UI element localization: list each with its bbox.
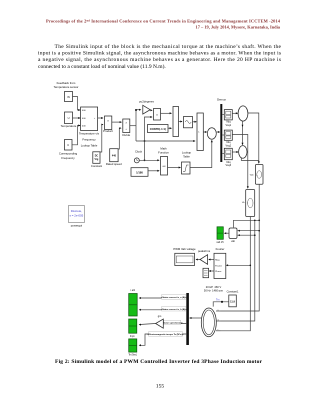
bus wire 1: stator current is_a (139, 297, 186, 299)
wire selector to mux1 (161, 112, 172, 114)
svg-text:C: C (67, 143, 69, 147)
svg-text:Lookup Table: Lookup Table (81, 143, 98, 147)
wire 1/180 to math function input 2 (148, 170, 159, 172)
math function block (161, 157, 168, 176)
display block PWM Vab voltage (175, 253, 195, 265)
label: Corresponding Frequency (59, 152, 78, 160)
svg-text:1/180: 1/180 (136, 171, 143, 175)
svg-text:input is a positive Simulink s: input is a positive Simulink signal, the… (38, 50, 281, 56)
svg-text:Function: Function (158, 151, 169, 155)
label: demux output 2 (225, 141, 231, 147)
wire machine m output to bus selector (190, 317, 202, 319)
svg-text:Clock: Clock (135, 149, 143, 153)
label: Temperature v/s Frequency Lookup Table (79, 131, 100, 147)
wire ellipse V2 bottom to Vab measurement top (241, 158, 258, 160)
svg-text:Vsq1: Vsq1 (225, 124, 231, 127)
svg-text:connected to a constant load o: connected to a constant load of nominal … (38, 63, 166, 70)
wire math function to lookup table 2 (168, 167, 181, 169)
svg-text:Demux: Demux (217, 98, 226, 102)
wire clock to math function input 1 (139, 159, 159, 161)
gain triangle peak2rms (200, 255, 208, 265)
label: Lookup Table (182, 150, 192, 158)
label: demux output 3 (225, 161, 231, 167)
bus wire 4: electromagnetic torque (139, 334, 186, 345)
wire block 3 to ellipse V2 (232, 151, 238, 153)
svg-text:a negative signal, the asynchr: a negative signal, the asynchronous mach… (38, 57, 281, 63)
wire horizontal tap y220 (234, 220, 260, 227)
wire gm gain to green scope frqm (139, 324, 155, 325)
svg-text:v: v (247, 203, 248, 205)
svg-text:Vsq3: Vsq3 (225, 164, 231, 167)
ellipse V1 (238, 106, 248, 121)
voltage measurement block Vab (255, 165, 263, 185)
signal label: Stator current is_a (161, 295, 187, 299)
svg-text:frqm: frqm (130, 335, 135, 338)
wire fourier input from phase bus (227, 264, 251, 266)
svg-text:Vtg: Vtg (95, 158, 99, 161)
demux output block 3 (224, 148, 232, 159)
wire selector mux to green scope vab (225, 232, 229, 234)
svg-text:Discrete,: Discrete, (71, 209, 83, 213)
wire demux to block 2 (222, 134, 224, 136)
display block phase (203, 268, 209, 277)
svg-text:IN: IN (67, 95, 70, 99)
wire ellipse V1 bottom to ellipse V2 top (242, 121, 244, 144)
modulator ellipse (207, 128, 216, 139)
fourier block (214, 253, 226, 278)
asynchronous machine (double ellipse) (201, 308, 216, 337)
inport block In2 (Temperature) (65, 112, 73, 124)
wire DC Vtg to product input 2 (100, 125, 103, 153)
svg-text:Temperature sensor: Temperature sensor (54, 85, 79, 89)
bus selector bar (186, 293, 189, 345)
green scope vab 15 (217, 227, 223, 240)
wire fourier mag to gain (209, 259, 214, 261)
wire In2 to lookup table input 2 (73, 117, 81, 119)
svg-text:Vsq2: Vsq2 (225, 144, 231, 147)
label: 20 HP 460 V 50 Hz 1460 rpm (204, 285, 223, 293)
svg-text:Tm: Tm (216, 299, 219, 302)
svg-text:pu2degrees: pu2degrees (139, 100, 154, 104)
svg-text:Rated speed: Rated speed (106, 162, 122, 166)
constant block DC Vtg (93, 152, 100, 164)
label: demux output 1 (225, 121, 231, 127)
bus wire 3: rotor speed through gain (163, 323, 186, 325)
node at mux feed branch (144, 140, 146, 142)
svg-text:Product: Product (103, 129, 113, 133)
machine terminal stubs A B C (216, 311, 221, 331)
svg-text:50 Hz 1460 rpm: 50 Hz 1460 rpm (204, 289, 223, 293)
ellipse V2 (239, 146, 247, 159)
mux1 tall block (173, 107, 179, 137)
svg-text:i a/b: i a/b (131, 289, 136, 292)
svg-text:17 – 19, July 2014, Mysore, Ka: 17 – 19, July 2014, Mysore, Karnataka, I… (196, 25, 281, 30)
wire gain to selector (150, 109, 152, 112)
wire block 2 right then down to voltage measurement 2 (232, 135, 248, 189)
demux bar (220, 104, 222, 162)
selector small block after gain (154, 109, 161, 121)
svg-text:vab: vab (231, 240, 236, 243)
wire measurement 2 bottom down to machine phase C (221, 217, 251, 331)
wire block 1 to ellipse V1 (232, 112, 237, 114)
svg-text:Fig 2: Simulink model of a PWM: Fig 2: Simulink model of a PWM Controlle… (55, 359, 263, 365)
wire mux1 to p block (179, 121, 183, 123)
wire divide output with branches (130, 110, 195, 141)
inport block In3 (Corresponding Frequency) (65, 140, 73, 151)
svg-text:Constant: Constant (91, 164, 102, 168)
mux2 tall block (197, 113, 203, 151)
svg-text:<Rotor speed (wm)>: <Rotor speed (wm)> (162, 321, 184, 324)
wire ellipse V1 right then down to Vab measurement (248, 113, 259, 163)
svg-text:Frequency: Frequency (61, 156, 75, 160)
svg-text:gm: gm (158, 315, 162, 318)
wire lookup table to product (98, 117, 103, 119)
constant block 1/180 (131, 168, 148, 177)
wire Constant1 to machine Tm input (213, 302, 229, 307)
svg-text:s = 2e-005: s = 2e-005 (70, 214, 84, 218)
voltage measurement block 2 (246, 190, 255, 217)
label: Math Function (158, 146, 169, 154)
svg-text:Table: Table (183, 155, 190, 159)
svg-text:The Simulink input of the bloc: The Simulink input of the block is the m… (55, 43, 282, 50)
wire gain to display (196, 259, 200, 261)
wire tap to selector mux input 1 (238, 230, 260, 232)
divide block (123, 119, 130, 133)
green scope block B (rotor speed) (129, 319, 137, 333)
wire In3 to lookup table input 3 (72, 126, 80, 145)
constant block 11.9 (229, 295, 237, 307)
wire product to divide (112, 121, 122, 123)
wire Rated speed to divide input 2 (118, 128, 121, 149)
bus wire 2: stator current is_b (139, 309, 186, 311)
svg-text:vab 15: vab 15 (216, 241, 224, 244)
svg-text:Constant1: Constant1 (227, 290, 239, 294)
wire tap to selector mux input 2 (238, 234, 255, 236)
svg-text:Divide: Divide (122, 133, 130, 137)
wire CONTD to mux1 input 2 (168, 127, 171, 129)
svg-text:v: v (257, 175, 258, 177)
svg-text:Frequency: Frequency (82, 137, 96, 141)
powergui block (68, 206, 84, 223)
svg-text:Phase: Phase (215, 271, 222, 273)
svg-text:U: U (68, 116, 70, 120)
constant block CONTD (148, 125, 169, 133)
svg-text:Fourier: Fourier (215, 264, 222, 267)
constant block 1440 (Rated speed) (110, 149, 118, 162)
wire modulator ellipse to demux (216, 131, 219, 133)
svg-text:440: 440 (112, 155, 117, 158)
green scope block A (stator currents) (129, 294, 138, 317)
product block (105, 116, 112, 130)
svg-text:c: c (218, 329, 219, 331)
wire mux2 to modulator ellipse (203, 131, 206, 133)
svg-text:155: 155 (156, 384, 165, 390)
signal label: Rotor speed (162, 320, 184, 324)
wire Vab bottom down to machine phase A (221, 184, 260, 311)
wire p block to mux2 (193, 121, 197, 123)
lookup table block: Temperature v/s Frequency Lookup Table (81, 107, 98, 131)
svg-text:PWM Vab voltage: PWM Vab voltage (173, 247, 196, 251)
gain triangle pu2degrees (143, 105, 150, 114)
demux output block 2 (224, 130, 232, 140)
wire lookup table 2 up to modulator ellipse (190, 141, 212, 168)
demux output block 1 (224, 110, 232, 120)
svg-text:powergui: powergui (71, 223, 83, 227)
wire demux to block 3 (222, 153, 224, 155)
wire fourier phase to display (209, 270, 214, 272)
svg-text:Temperature v/s: Temperature v/s (79, 131, 100, 135)
green scope block C (torque) (129, 339, 137, 352)
svg-text:Te (Nm): Te (Nm) (128, 354, 137, 357)
label: Feedback from Temperature sensor (54, 81, 79, 89)
signal label: Stator current is_b (161, 307, 187, 311)
svg-text:<Stator current is_b (A)>: <Stator current is_b (A)> (161, 308, 187, 311)
wire ellipse V2 right stub (246, 151, 249, 153)
wire In1 to lookup table input 1 (73, 97, 81, 111)
svg-text:Proceedings of the 2nd Interna: Proceedings of the 2nd International Con… (46, 18, 281, 23)
svg-text:<Electromagnetic torque Te (N*: <Electromagnetic torque Te (N*m)> (147, 333, 184, 336)
inport block In1 (65, 92, 73, 102)
svg-text:CONTD(-1:1): CONTD(-1:1) (150, 127, 166, 131)
svg-text:Fourier: Fourier (216, 247, 225, 251)
selector mux block vab (229, 228, 237, 239)
svg-text:Temperature: Temperature (61, 124, 77, 128)
svg-text:<Stator current is_a (A)>: <Stator current is_a (A)> (161, 296, 187, 299)
signal label: Electromagnetic torque (147, 332, 184, 336)
svg-text:20 HP 460 V: 20 HP 460 V (206, 285, 222, 289)
svg-text:DC: DC (95, 156, 99, 158)
svg-text:peak2rms: peak2rms (198, 249, 211, 253)
clock block (134, 158, 139, 163)
gain triangle gm (pointing left) (156, 319, 164, 328)
svg-text:11.9: 11.9 (230, 301, 235, 304)
wire demux to block 1 (222, 114, 224, 116)
sine function block p (184, 117, 193, 128)
node at gain branch (135, 109, 137, 111)
wire branch up to selector input 2 (145, 117, 152, 141)
node on clock wire crossing (144, 159, 146, 161)
lookup table 2 block (182, 162, 191, 174)
wire vertical to machine phase B (221, 220, 255, 321)
